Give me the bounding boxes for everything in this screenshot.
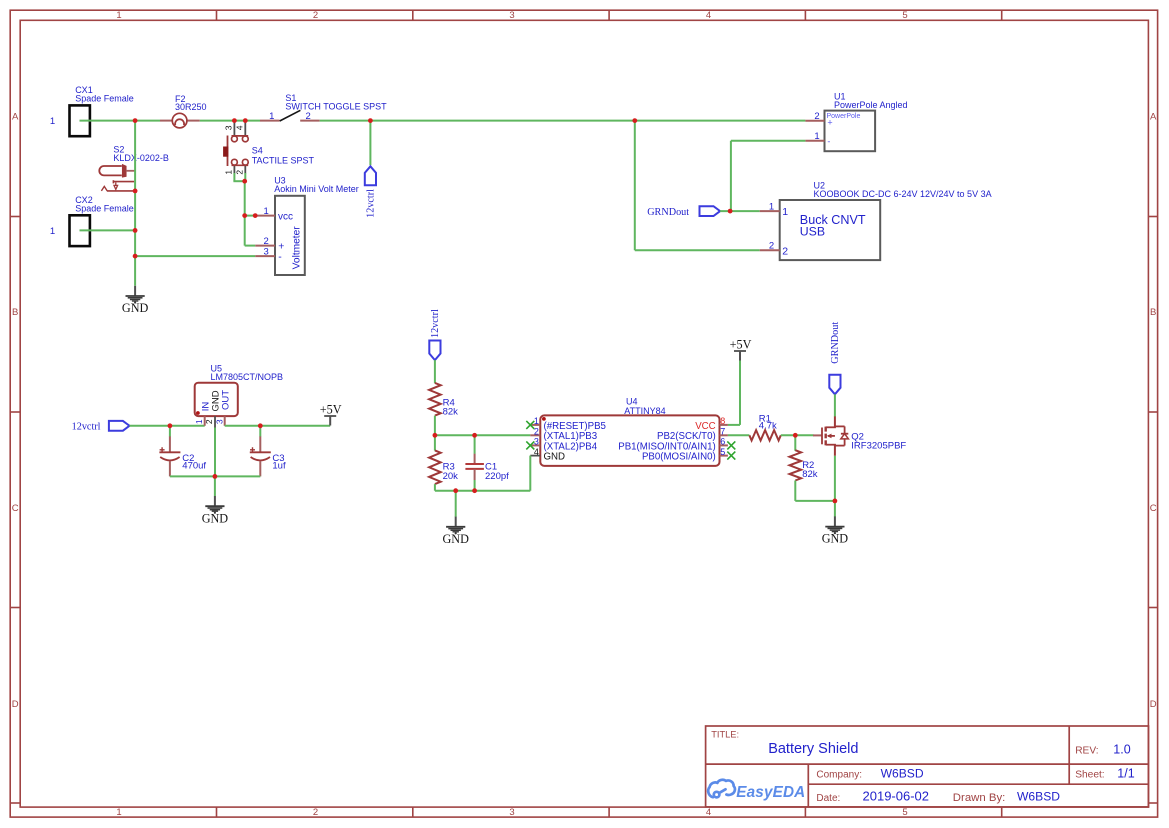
junction U5 gnd (213, 474, 218, 479)
svg-text:5: 5 (720, 447, 725, 457)
wire CX1 pin1 to junction (80, 120, 161, 122)
wire U5 out row (225, 425, 331, 427)
svg-text:Battery Shield: Battery Shield (768, 741, 858, 757)
svg-text:ATTINY84: ATTINY84 (624, 406, 665, 416)
junction S4 pin3 (232, 118, 237, 123)
junction CX2 row (133, 228, 138, 233)
svg-text:2: 2 (306, 111, 311, 122)
wire R3 to rail (434, 484, 436, 491)
svg-text:8: 8 (720, 416, 725, 426)
wire pin7 to R1 (728, 434, 750, 436)
wire fuse to S1 (200, 120, 260, 122)
junction S2 sleeve (133, 189, 138, 194)
junction C2 top (168, 423, 173, 428)
wire GRNDout to U2 pin1 (720, 210, 760, 212)
wire R4 to junction (434, 416, 436, 451)
wire R2 to rail (794, 481, 796, 501)
svg-text:1: 1 (264, 206, 269, 217)
svg-text:1: 1 (269, 111, 274, 122)
svg-text:vcc: vcc (278, 212, 293, 223)
svg-text:C: C (12, 503, 19, 514)
switch S4 TACTILE SPST (223, 121, 314, 175)
svg-text:12vctrl: 12vctrl (72, 422, 101, 433)
svg-text:GND: GND (442, 532, 469, 546)
svg-text:1: 1 (224, 170, 234, 175)
ground flag GND left (134, 286, 136, 296)
no-connect X pin1 (526, 421, 534, 429)
capacitor C1 220pf (465, 435, 509, 490)
wire 12vctrl to U5 pin1 (130, 425, 205, 427)
svg-text:+5V: +5V (320, 403, 342, 417)
svg-text:2: 2 (235, 170, 245, 175)
title block grid (706, 726, 1149, 807)
wire S4 pin1 down (233, 173, 235, 181)
regulator U5 LM7805CT/NOPB (194, 364, 283, 428)
svg-text:EasyEDA: EasyEDA (736, 784, 805, 801)
wire gnd stem Q2 (834, 501, 836, 517)
ground flag GND (U5) (214, 496, 216, 506)
connector S2 KLDX-0202-B (99, 144, 169, 191)
junction 12vctrl (368, 118, 373, 123)
svg-text:2: 2 (313, 10, 318, 21)
svg-text:IRF3205PBF: IRF3205PBF (851, 440, 906, 451)
wire main vertical left (134, 121, 136, 286)
svg-text:1uf: 1uf (272, 460, 286, 471)
svg-text:KOOBOOK DC-DC 6-24V 12V/24V to: KOOBOOK DC-DC 6-24V 12V/24V to 5V 3A (814, 189, 992, 199)
svg-text:KLDX-0202-B: KLDX-0202-B (113, 153, 169, 163)
wire U5 gnd down (214, 428, 216, 477)
connector CX2 Spade Female (50, 195, 134, 246)
resistor R3 20k (429, 450, 458, 484)
no-connect X pin5 (727, 452, 735, 460)
junction R4 R3 (433, 433, 438, 438)
svg-text:REV:: REV: (1075, 745, 1098, 756)
wire main to U2 pin2 vertical (634, 121, 636, 251)
junction GND row (133, 254, 138, 259)
power flag +5V (U5 out) (324, 415, 336, 417)
svg-text:2019-06-02: 2019-06-02 (863, 789, 930, 804)
resistor R4 82k (429, 383, 458, 417)
svg-text:2: 2 (814, 111, 819, 122)
wire CX2 pin1 (80, 229, 136, 231)
svg-text:D: D (1150, 699, 1157, 710)
no-connect X pin6 (727, 441, 735, 449)
svg-text:-: - (827, 136, 830, 146)
junction C1 top (472, 433, 477, 438)
svg-text:2: 2 (204, 419, 214, 424)
junction S4 pin4 (243, 118, 248, 123)
svg-text:4: 4 (706, 10, 711, 21)
svg-text:3: 3 (264, 246, 269, 257)
svg-text:LM7805CT/NOPB: LM7805CT/NOPB (211, 372, 284, 382)
svg-text:220pf: 220pf (485, 471, 509, 482)
svg-text:C: C (1150, 503, 1157, 514)
wire S4 to voltmeter vcc (244, 181, 246, 245)
junction R2 top (793, 433, 798, 438)
svg-text:4.7k: 4.7k (759, 421, 777, 432)
net flag 12vctrl (top) (365, 166, 376, 185)
svg-text:4: 4 (235, 125, 245, 130)
wire vcc link (245, 215, 256, 217)
wire S1 to U1 pin2 (320, 120, 806, 122)
svg-text:Spade Female: Spade Female (75, 94, 134, 104)
wire gnd stem U5 (214, 476, 216, 496)
svg-text:A: A (1150, 112, 1157, 123)
svg-text:Company:: Company: (816, 770, 862, 781)
wire GRNDout flag to Q2 (834, 394, 836, 416)
svg-text:82k: 82k (802, 469, 818, 480)
svg-text:1: 1 (50, 116, 55, 127)
junction vcc right (253, 213, 258, 218)
svg-text:USB: USB (800, 224, 825, 238)
junction S4 row (242, 179, 247, 184)
svg-text:3: 3 (509, 10, 514, 21)
svg-text:+: + (827, 117, 832, 127)
svg-text:1: 1 (534, 416, 539, 426)
svg-text:7: 7 (720, 427, 725, 437)
svg-text:OUT: OUT (221, 390, 232, 410)
net flag GRNDout (left) (700, 206, 721, 216)
svg-text:GND: GND (822, 532, 849, 546)
svg-text:1: 1 (782, 206, 788, 218)
net flag GRNDout (Q2 drain) (829, 375, 840, 395)
svg-text:12vctrl: 12vctrl (430, 309, 441, 338)
wire S4 pin2 down (244, 173, 246, 181)
wire R2 rail to source (795, 500, 835, 502)
wire R1 to gate (781, 434, 814, 436)
svg-text:1: 1 (814, 131, 819, 142)
meter U3 Aokin Mini Volt Meter (255, 176, 359, 275)
net flag 12vctrl (U5 input) (109, 421, 130, 431)
mcu U4 ATTINY84 (530, 396, 728, 466)
svg-text:12vctrl: 12vctrl (366, 189, 377, 218)
EasyEDA logo (708, 780, 805, 801)
svg-text:20k: 20k (443, 471, 459, 482)
svg-text:Voltmeter: Voltmeter (291, 226, 302, 270)
wire bottom rail mcu (435, 490, 530, 492)
svg-text:TACTILE SPST: TACTILE SPST (252, 156, 315, 166)
svg-text:1: 1 (769, 201, 774, 212)
svg-text:B: B (12, 307, 18, 318)
capacitor C3 1uf (250, 426, 286, 477)
svg-text:U4: U4 (626, 396, 638, 406)
svg-text:W6BSD: W6BSD (1017, 790, 1060, 804)
svg-text:2: 2 (769, 241, 774, 252)
wire U2 pin2 row (635, 249, 760, 251)
svg-text:GND: GND (202, 511, 229, 525)
svg-text:2: 2 (534, 427, 539, 437)
svg-text:3: 3 (224, 125, 234, 130)
resistor R2 82k (790, 450, 818, 480)
svg-text:+5V: +5V (730, 338, 752, 352)
junction vcc left (242, 213, 247, 218)
wire Q2 source down (834, 456, 836, 501)
junction GRNDout (728, 209, 733, 214)
svg-text:PB0(MOSI/AIN0): PB0(MOSI/AIN0) (642, 452, 716, 463)
svg-text:B: B (1150, 307, 1156, 318)
wire row B left (435, 434, 530, 436)
wire +5V vertical (739, 360, 741, 425)
switch S1 SWITCH TOGGLE SPST (260, 93, 387, 122)
wire to 12vctrl flag (369, 121, 371, 166)
svg-text:GRNDout: GRNDout (647, 207, 689, 218)
svg-text:1/1: 1/1 (1117, 766, 1134, 780)
connector CX1 Spade Female (50, 85, 134, 136)
svg-text:2: 2 (782, 246, 788, 258)
svg-text:Sheet:: Sheet: (1075, 770, 1104, 781)
no-connect X pin3 (526, 441, 534, 449)
title block texts (711, 729, 1135, 804)
svg-text:Date:: Date: (816, 793, 840, 804)
svg-text:82k: 82k (443, 406, 459, 417)
junction main right split (632, 118, 637, 123)
svg-text:GND: GND (122, 301, 149, 315)
wire U4 pin4 down (529, 456, 531, 491)
wire cap bottom rail (170, 475, 260, 477)
svg-text:D: D (12, 699, 19, 710)
svg-text:1.0: 1.0 (1113, 742, 1130, 756)
fuse F2 30R250 (160, 94, 207, 128)
svg-text:GND: GND (544, 452, 566, 463)
svg-text:1: 1 (116, 10, 121, 21)
svg-text:A: A (12, 112, 19, 123)
svg-text:GRNDout: GRNDout (830, 322, 841, 364)
wire U1 pin1 row (731, 140, 806, 142)
junction source rail (833, 499, 838, 504)
wire U1 pin1 down to GRNDout (730, 141, 732, 211)
junction main top (133, 118, 138, 123)
wire gnd stem mcu (455, 491, 457, 517)
wire GND row to voltmeter pin3 (135, 255, 255, 257)
module U2 KOOBOOK DC-DC buck converter (760, 180, 992, 260)
svg-text:3: 3 (214, 419, 224, 424)
resistor R1 4.7k (749, 414, 780, 441)
svg-text:5: 5 (902, 10, 907, 21)
svg-text:Spade Female: Spade Female (75, 204, 134, 214)
svg-text:TITLE:: TITLE: (711, 729, 739, 739)
svg-text:PowerPole Angled: PowerPole Angled (834, 100, 908, 110)
junction gnd rail (453, 488, 458, 493)
svg-text:6: 6 (720, 437, 725, 447)
power flag +5V (U4) (734, 350, 746, 352)
net flag 12vctrl (R4 top) (429, 341, 440, 361)
svg-text:2: 2 (313, 807, 318, 818)
svg-text:1: 1 (116, 807, 121, 818)
capacitor C2 470uf (159, 426, 206, 477)
svg-text:S4: S4 (252, 146, 263, 156)
wire R2 stub (794, 435, 796, 451)
svg-text:W6BSD: W6BSD (881, 766, 924, 780)
svg-text:1: 1 (194, 419, 204, 424)
transistor Q2 IRF3205PBF (813, 416, 906, 455)
junction C3 top (258, 423, 263, 428)
connector U1 PowerPole Angled (805, 92, 907, 152)
ground flag GND (Q2) (834, 516, 836, 526)
svg-text:3: 3 (534, 437, 539, 447)
svg-text:Drawn By:: Drawn By: (953, 792, 1006, 804)
svg-text:Aokin Mini Volt Meter: Aokin Mini Volt Meter (274, 184, 359, 194)
wire voltmeter pin2 row (245, 245, 256, 247)
svg-text:3: 3 (509, 807, 514, 818)
wire 12vctrl flag to R4 (434, 360, 436, 383)
junction C1 bottom (472, 488, 477, 493)
svg-text:4: 4 (534, 447, 539, 457)
wire VCC to +5V (728, 424, 740, 426)
svg-text:4: 4 (706, 807, 711, 818)
svg-text:1: 1 (50, 226, 55, 237)
svg-text:2: 2 (264, 236, 269, 247)
ground flag GND (mcu) (455, 517, 457, 527)
svg-text:SWITCH TOGGLE SPST: SWITCH TOGGLE SPST (285, 101, 387, 111)
svg-text:5: 5 (902, 807, 907, 818)
svg-text:-: - (278, 251, 282, 263)
wire S4 pins junction row (233, 180, 245, 182)
svg-text:470uf: 470uf (182, 460, 206, 471)
svg-text:30R250: 30R250 (175, 102, 207, 112)
